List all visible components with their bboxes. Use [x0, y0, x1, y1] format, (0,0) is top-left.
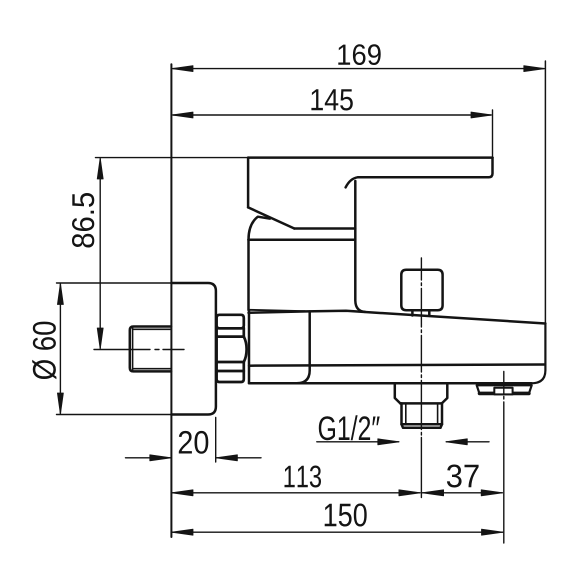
dimension D60 bottom extension [57, 414, 172, 416]
dimension D60 top arrow [57, 283, 63, 304]
inlet pipe thread left inner line [132, 328, 134, 371]
cartridge collar top [249, 238, 356, 241]
lever underside diagonal [248, 207, 294, 228]
dimension 150 line [172, 531, 503, 533]
lever handle top [248, 156, 492, 159]
dimension G1/2 left arrow [378, 439, 399, 445]
dimension 150 right arrow [482, 529, 503, 535]
text dim20 20 [179, 431, 209, 454]
inlet threaded pipe [130, 327, 171, 372]
hex nut facet band lower [217, 362, 244, 371]
cartridge right edge with fillet [355, 240, 365, 312]
lever underside right [346, 177, 489, 187]
diverter axis centerline [420, 258, 422, 498]
text dimD60 Ø 60 [32, 322, 56, 380]
dimension D60 top extension [57, 282, 172, 284]
inlet pipe axis centerline [94, 349, 184, 351]
lever left edge [247, 158, 250, 208]
cartridge left edge [247, 240, 250, 310]
check valve bottom band [480, 392, 529, 396]
dimension 145 line [173, 114, 491, 116]
dimension G1/2 right arrow [446, 439, 467, 445]
lever right edge [489, 158, 493, 178]
dimension D60 bottom arrow [57, 393, 63, 414]
dimension 145 right extension [492, 110, 494, 158]
check valve nub [494, 388, 512, 395]
text dim113 113 [285, 466, 322, 488]
cartridge cap arc [249, 217, 271, 240]
dimension 113 left arrow [172, 490, 193, 496]
text dim169 169 [338, 44, 380, 65]
dimension 169 right extension [544, 61, 546, 324]
body front lower edge [297, 312, 310, 384]
check valve body [477, 385, 532, 393]
lever underside left horizontal [294, 227, 355, 230]
dimension 169 line [173, 68, 544, 70]
dimension 20 line right tail [216, 457, 261, 459]
dimension 113 line [172, 492, 420, 494]
dimension 145 right arrow [471, 112, 492, 118]
check valve axis centerline [503, 372, 505, 544]
connection hex nut [217, 315, 244, 329]
text dimG12 G1/2″ [319, 415, 380, 440]
dimension 20 flange extension [215, 418, 217, 463]
text dim150 150 [325, 504, 367, 527]
wall line [170, 64, 172, 537]
diverter knob [401, 270, 442, 311]
wall flange [171, 283, 216, 415]
dimension 20 line left tail [126, 457, 172, 459]
hex nut middle facet [217, 337, 247, 362]
hex nut facet band upper [217, 328, 244, 337]
body bottom line [249, 382, 532, 385]
body left edge [248, 311, 251, 384]
dimension 86.5 top arrow [97, 158, 103, 179]
shower outlet bottom cap [402, 424, 443, 427]
text dim865 86.5 [72, 193, 94, 248]
dimension 37 line [423, 492, 503, 494]
body right edge [532, 324, 546, 384]
body mid bottom line [249, 365, 545, 366]
dimension D60 line [59, 284, 61, 414]
text dim37 37 [447, 465, 479, 488]
body top slope line [249, 311, 546, 324]
dimension 169 right arrow [524, 66, 545, 72]
inlet pipe thread inner top line [134, 328, 172, 330]
body top wedge upper line [249, 310, 306, 311]
inlet pipe thread inner bottom line [134, 368, 172, 370]
dimension 150 left arrow [172, 529, 193, 535]
text dim145 145 [311, 89, 352, 110]
dimension G1/2 right tail [446, 441, 489, 443]
diverter knob stem [412, 310, 429, 316]
dimension 86.5 bottom arrow [97, 328, 103, 349]
dimension 169 left arrow [172, 66, 193, 72]
dimension G1/2 leader line [317, 441, 399, 443]
dimension 145 left arrow [172, 112, 193, 118]
dimension 20 right arrow [216, 455, 237, 461]
shower outlet thread inner lines [406, 403, 438, 424]
shower outlet thread outer [402, 403, 443, 424]
dimension 113 right arrow [399, 490, 420, 496]
dimension 86.5 extension (lever top left) [96, 157, 248, 159]
shower outlet collar bottom line [400, 402, 442, 405]
dimension 37 right arrow [481, 490, 502, 496]
hex nut bottom facet [217, 371, 244, 382]
dimension 20 left arrow [150, 455, 171, 461]
lever neck edge [354, 181, 357, 239]
dimension 86.5 line [99, 159, 101, 348]
dimension 37 left arrow [422, 490, 443, 496]
shower outlet collar [395, 384, 448, 404]
